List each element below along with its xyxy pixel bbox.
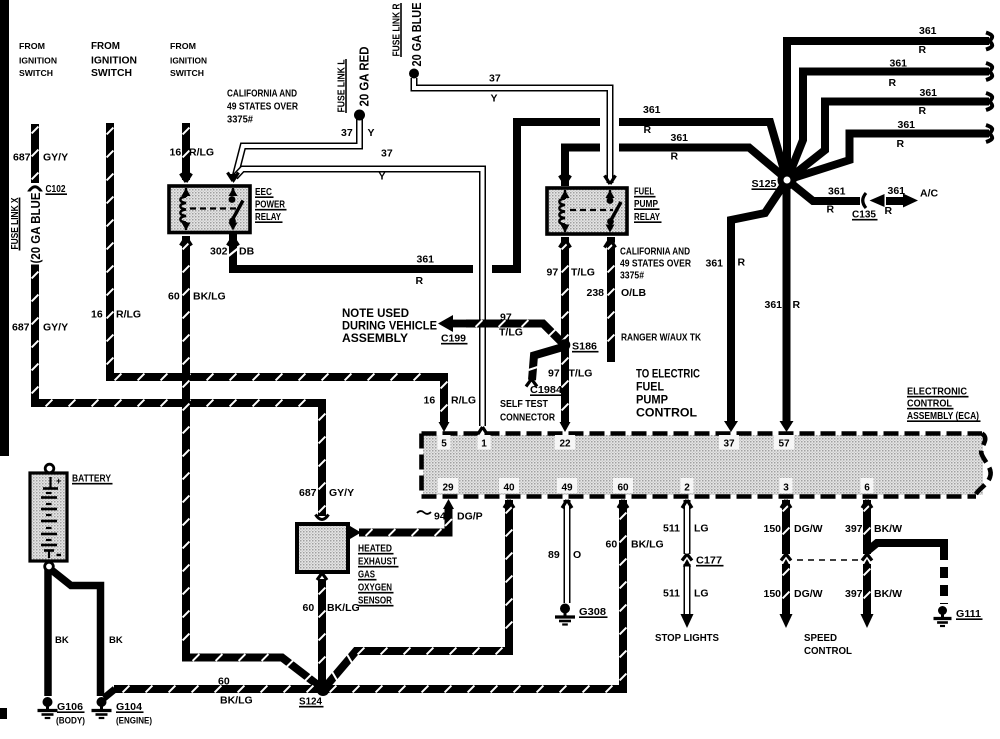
svg-text:T/LG: T/LG <box>569 368 593 380</box>
svg-text:60: 60 <box>617 483 629 494</box>
svg-text:R: R <box>885 205 893 217</box>
svg-text:361: 361 <box>919 25 937 37</box>
fuel pump relay coil and contacts <box>559 190 621 233</box>
svg-text:37: 37 <box>381 148 393 160</box>
wire crossing break <box>473 258 492 280</box>
svg-text:361: 361 <box>417 254 435 266</box>
HEGO bottom connector <box>317 573 327 580</box>
svg-text:DG/W: DG/W <box>794 523 823 535</box>
svg-text:49 STATES OVER: 49 STATES OVER <box>227 102 299 113</box>
wire 60 BK/LG from ECA pin 40 to S124 <box>325 500 510 688</box>
arrow to A/C <box>903 194 918 208</box>
svg-text:238: 238 <box>587 287 605 299</box>
wire 60 BK/LG main ground bus through S124 to ECA pin 60 <box>114 500 623 689</box>
svg-text:HEATED: HEATED <box>358 543 392 555</box>
connector C177 <box>682 554 692 561</box>
wire BK battery negative to G104 <box>49 568 101 696</box>
wire 511 LG from ECA pin 2 to stop lights <box>684 500 691 554</box>
svg-text:S124: S124 <box>299 696 322 708</box>
svg-text:3375#: 3375# <box>227 115 253 126</box>
wire 150 DG/W to speed control lower <box>782 564 790 614</box>
svg-text:SELF TEST: SELF TEST <box>500 399 548 410</box>
svg-text:RELAY: RELAY <box>255 211 281 223</box>
svg-text:1: 1 <box>481 439 487 450</box>
battery terminals and cells <box>41 464 61 571</box>
svg-text:CONTROL: CONTROL <box>804 645 853 657</box>
svg-text:FROM: FROM <box>19 42 45 51</box>
label 20 GA BLUE fuse link X <box>26 192 42 265</box>
wire 60 BK/LG from EEC relay down to S124 <box>186 236 323 689</box>
relay K1 EEC power relay box <box>169 186 250 233</box>
svg-text:361: 361 <box>920 87 938 99</box>
connector C135 <box>863 193 866 208</box>
wire 361 R from S125 down to ECA pin 37 <box>731 180 787 426</box>
wire 37 Y from fuse link L to EEC relay <box>235 119 360 177</box>
svg-text:RANGER W/AUX TK: RANGER W/AUX TK <box>621 333 702 344</box>
svg-text:SPEED: SPEED <box>804 632 837 644</box>
wire 37 Y from fuse link R to fuel pump relay <box>414 78 610 183</box>
svg-text:C1984: C1984 <box>530 385 562 396</box>
svg-text:LG: LG <box>694 588 709 600</box>
svg-text:361: 361 <box>671 132 689 144</box>
svg-text:R: R <box>644 124 652 136</box>
svg-text:49 STATES OVER: 49 STATES OVER <box>620 259 692 270</box>
svg-text:G111: G111 <box>956 609 981 620</box>
wire 361 R from EEC relay pin 302 DB up to S125 <box>233 122 787 269</box>
fuse link L terminal dot <box>354 110 365 121</box>
svg-text:BK/LG: BK/LG <box>220 695 253 707</box>
wire stub to G104 <box>104 689 115 698</box>
svg-text:150: 150 <box>764 523 782 535</box>
wire 60 BK/LG from HEGO sensor down to S124 <box>318 579 326 685</box>
svg-text:16: 16 <box>170 147 182 159</box>
svg-text:G104: G104 <box>116 702 142 713</box>
svg-text:BATTERY: BATTERY <box>72 473 111 485</box>
node S124 junction <box>317 683 330 696</box>
svg-text:IGNITION: IGNITION <box>170 57 207 66</box>
svg-text:94: 94 <box>434 511 446 523</box>
svg-text:397: 397 <box>845 588 863 600</box>
svg-text:20 GA RED: 20 GA RED <box>357 47 372 107</box>
wire 16 R/LG from ignition switch to EEC relay <box>182 123 190 180</box>
scan border bar left edge <box>0 0 9 456</box>
svg-text:16: 16 <box>91 309 103 321</box>
svg-text:BK: BK <box>109 635 123 646</box>
wire 16 R/LG from ignition switch to ECA pin 5 <box>110 123 444 425</box>
svg-text:DB: DB <box>239 246 255 258</box>
svg-text:C135: C135 <box>852 209 876 221</box>
svg-text:16: 16 <box>424 395 436 407</box>
wire 397 BK/W branch from pin 6 wire to G111 <box>866 543 944 552</box>
svg-text:STOP LIGHTS: STOP LIGHTS <box>655 632 719 644</box>
svg-text:Y: Y <box>491 93 498 105</box>
node S125 junction <box>781 174 794 187</box>
svg-text:C177: C177 <box>696 555 722 567</box>
svg-text:37: 37 <box>723 439 735 450</box>
svg-text:GAS: GAS <box>358 569 375 581</box>
svg-text:IGNITION: IGNITION <box>19 57 57 66</box>
svg-text:DG/P: DG/P <box>457 511 483 523</box>
svg-text:361: 361 <box>828 186 846 198</box>
wire BK battery negative to G106 <box>44 569 52 696</box>
svg-text:361: 361 <box>898 119 916 131</box>
connector C102 <box>29 187 42 192</box>
svg-text:(20 GA BLUE: (20 GA BLUE <box>28 192 43 263</box>
svg-text:37: 37 <box>341 127 353 139</box>
label from ignition switch 1 <box>19 42 57 78</box>
svg-text:R: R <box>416 275 424 287</box>
wire 397 BK/W to speed control lower <box>863 564 871 614</box>
svg-text:CALIFORNIA AND: CALIFORNIA AND <box>227 89 297 100</box>
svg-text:BK/LG: BK/LG <box>193 291 226 303</box>
svg-text:R: R <box>738 257 746 269</box>
svg-text:PUMP: PUMP <box>634 198 658 210</box>
svg-text:NOTE USED: NOTE USED <box>342 308 409 320</box>
ground G308 <box>560 604 570 614</box>
svg-text:361: 361 <box>706 258 724 270</box>
wire 150 DG/W from ECA pin 3 upper <box>782 500 790 554</box>
svg-text:DURING VEHICLE: DURING VEHICLE <box>342 321 437 333</box>
HEGO sensor box <box>297 524 348 572</box>
label 94 DG/P <box>417 511 431 514</box>
ECA bottom pin symbols <box>443 499 454 509</box>
svg-text:R/LG: R/LG <box>189 147 214 159</box>
svg-text:BK/W: BK/W <box>874 588 902 600</box>
svg-text:20 GA BLUE: 20 GA BLUE <box>409 2 424 66</box>
svg-text:R: R <box>919 44 927 56</box>
svg-text:LG: LG <box>694 523 709 535</box>
svg-text:A/C: A/C <box>920 188 939 200</box>
svg-text:BK: BK <box>55 635 69 646</box>
svg-text:49: 49 <box>561 483 573 494</box>
svg-text:R: R <box>827 204 835 216</box>
svg-text:150: 150 <box>764 588 782 600</box>
svg-text:TO ELECTRIC: TO ELECTRIC <box>636 369 700 381</box>
wire 397 BK/W from ECA pin 6 upper <box>863 500 871 554</box>
svg-text:FUEL: FUEL <box>636 382 664 394</box>
svg-text:60: 60 <box>606 539 618 551</box>
svg-text:C102: C102 <box>46 183 66 195</box>
svg-text:IGNITION: IGNITION <box>91 56 137 67</box>
ground G106 <box>43 697 53 707</box>
ECA pin numbers bottom <box>438 478 458 493</box>
svg-text:687: 687 <box>12 322 30 334</box>
svg-text:511: 511 <box>663 523 680 535</box>
ground G104 <box>97 697 107 707</box>
svg-text:Y: Y <box>368 127 375 139</box>
svg-text:CONTROL: CONTROL <box>907 399 952 410</box>
ground G111 <box>938 606 947 615</box>
svg-text:G106: G106 <box>57 702 83 713</box>
wire 361 R from fuel pump relay to S125 <box>565 148 787 187</box>
svg-text:BK/LG: BK/LG <box>327 602 360 614</box>
svg-text:687: 687 <box>13 152 31 164</box>
wire 361 R from S125 to C135 A/C <box>787 180 860 201</box>
svg-text:3: 3 <box>783 483 789 494</box>
svg-text:SWITCH: SWITCH <box>19 69 53 78</box>
EEC relay pin forks <box>181 174 192 183</box>
svg-text:Y: Y <box>379 171 386 183</box>
svg-text:R/LG: R/LG <box>116 309 141 321</box>
HEGO right connector arrow <box>350 526 361 539</box>
svg-text:PUMP: PUMP <box>636 395 668 407</box>
svg-text:O: O <box>573 549 581 561</box>
svg-text:361: 361 <box>643 104 661 116</box>
svg-text:BK/W: BK/W <box>874 523 902 535</box>
svg-text:(BODY): (BODY) <box>56 716 85 727</box>
wire 361 R second branch right <box>787 72 989 181</box>
connector at ECA pin 6 wire <box>862 554 872 561</box>
svg-text:FROM: FROM <box>170 42 196 51</box>
wire 37 Y from EEC relay to ECA pin 1 <box>235 169 483 426</box>
svg-text:CONNECTOR: CONNECTOR <box>500 413 556 424</box>
svg-text:(ENGINE): (ENGINE) <box>116 716 152 727</box>
svg-text:EXHAUST: EXHAUST <box>358 556 397 568</box>
svg-text:R: R <box>793 299 801 311</box>
fuse link R terminal dot <box>409 69 419 79</box>
svg-text:FROM: FROM <box>91 41 120 52</box>
svg-text:G308: G308 <box>579 607 606 618</box>
svg-text:+: + <box>56 476 61 486</box>
wire 687 GY/Y fuse link X upper segment <box>31 124 39 183</box>
svg-text:SWITCH: SWITCH <box>170 69 204 78</box>
svg-text:2: 2 <box>684 483 690 494</box>
svg-text:POWER: POWER <box>255 199 285 211</box>
wire 687 GY/Y from C102 down and across to HEGO sensor <box>35 192 322 516</box>
node S186 junction <box>559 339 571 351</box>
svg-text:T/LG: T/LG <box>571 267 595 279</box>
ECA top pin arrows <box>439 422 450 432</box>
svg-text:57: 57 <box>778 439 790 450</box>
arrow speed control pin 6 <box>861 614 874 628</box>
white slash on 302 DB segment <box>229 248 239 256</box>
arrow into EEC relay pin <box>229 174 239 183</box>
svg-text:ASSEMBLY: ASSEMBLY <box>342 333 408 345</box>
svg-text:R: R <box>897 138 905 150</box>
svg-text:302: 302 <box>210 246 228 258</box>
wire 361 R from S125 up to top right arrow <box>787 41 989 184</box>
svg-text:S125: S125 <box>752 178 777 190</box>
dashed link between speed control connectors <box>797 559 858 561</box>
svg-text:361: 361 <box>888 185 906 197</box>
svg-text:FUEL: FUEL <box>634 186 654 198</box>
svg-text:GY/Y: GY/Y <box>43 322 68 334</box>
wire 97 T/LG branch from S186 to C1984 self test connector <box>532 347 563 380</box>
svg-text:89: 89 <box>548 549 560 561</box>
svg-text:60: 60 <box>168 291 180 303</box>
svg-text:CONTROL: CONTROL <box>636 408 697 420</box>
svg-text:511: 511 <box>663 588 680 600</box>
fuel pump relay pin forks <box>560 176 571 185</box>
svg-text:GY/Y: GY/Y <box>43 152 68 164</box>
svg-text:ELECTRONIC: ELECTRONIC <box>907 387 967 398</box>
svg-text:361: 361 <box>890 58 908 70</box>
svg-text:60: 60 <box>218 676 230 688</box>
svg-text:SWITCH: SWITCH <box>91 68 132 79</box>
wire 94 DG/P from HEGO sensor to ECA pin 29 <box>359 507 449 533</box>
svg-text:T/LG: T/LG <box>499 327 523 339</box>
wire 361 R from S125 down to ECA pin 57 <box>783 182 791 426</box>
svg-text:CALIFORNIA AND: CALIFORNIA AND <box>620 247 690 258</box>
svg-text:ASSEMBLY (ECA): ASSEMBLY (ECA) <box>907 411 979 422</box>
svg-text:361: 361 <box>765 299 783 311</box>
svg-text:687: 687 <box>299 487 317 499</box>
wire 97 T/LG from C199 to S186 <box>466 324 565 346</box>
wire 361 R third branch right <box>787 102 989 181</box>
svg-text:RELAY: RELAY <box>634 211 660 223</box>
svg-text:97: 97 <box>500 312 512 324</box>
svg-text:O/LB: O/LB <box>621 287 646 299</box>
svg-text:R: R <box>889 77 897 89</box>
svg-text:5: 5 <box>441 439 447 450</box>
svg-text:SENSOR: SENSOR <box>358 595 392 607</box>
wire 97 T/LG from fuel pump relay through S186 to ECA pin 22 <box>561 237 569 425</box>
svg-text:OXYGEN: OXYGEN <box>358 582 392 594</box>
svg-text:22: 22 <box>559 439 571 450</box>
svg-text:3375#: 3375# <box>620 271 644 282</box>
wire 361 R fourth branch right <box>787 134 989 181</box>
svg-text:97: 97 <box>548 368 560 380</box>
svg-text:BK/LG: BK/LG <box>631 539 664 551</box>
svg-text:R: R <box>671 151 679 163</box>
wire 238 O/LB from fuel pump relay <box>607 237 615 362</box>
relay K2 fuel pump relay box <box>547 188 627 234</box>
svg-text:DG/W: DG/W <box>794 588 823 600</box>
svg-text:60: 60 <box>303 602 315 614</box>
svg-text:S186: S186 <box>572 341 597 353</box>
arrow stop lights <box>681 614 694 628</box>
svg-text:EEC: EEC <box>255 186 272 198</box>
connector C199 arrow <box>438 315 453 332</box>
wire crossing break <box>600 111 619 133</box>
svg-text:397: 397 <box>845 523 863 535</box>
svg-text:40: 40 <box>503 483 515 494</box>
wire crossing break <box>600 136 619 159</box>
svg-text:29: 29 <box>442 483 454 494</box>
svg-text:37: 37 <box>489 73 501 85</box>
svg-text:6: 6 <box>864 483 870 494</box>
battery box <box>30 473 67 561</box>
wire 89 O from ECA pin 49 to G308 <box>564 500 571 603</box>
connector at ECA pin 3 wire speed control <box>781 554 791 561</box>
ECA pin numbers top <box>438 435 451 450</box>
svg-text:R/LG: R/LG <box>451 395 476 407</box>
HEGO top connector <box>316 515 329 520</box>
connector C1984 <box>526 379 537 387</box>
EEC relay coil and contacts <box>180 188 243 231</box>
svg-text:C199: C199 <box>441 334 466 345</box>
ECA electronic control assembly box <box>422 434 991 497</box>
svg-text:97: 97 <box>547 267 559 279</box>
arrow speed control pin 3 <box>780 614 793 628</box>
svg-text:GY/Y: GY/Y <box>329 487 354 499</box>
svg-text:R: R <box>919 105 927 117</box>
